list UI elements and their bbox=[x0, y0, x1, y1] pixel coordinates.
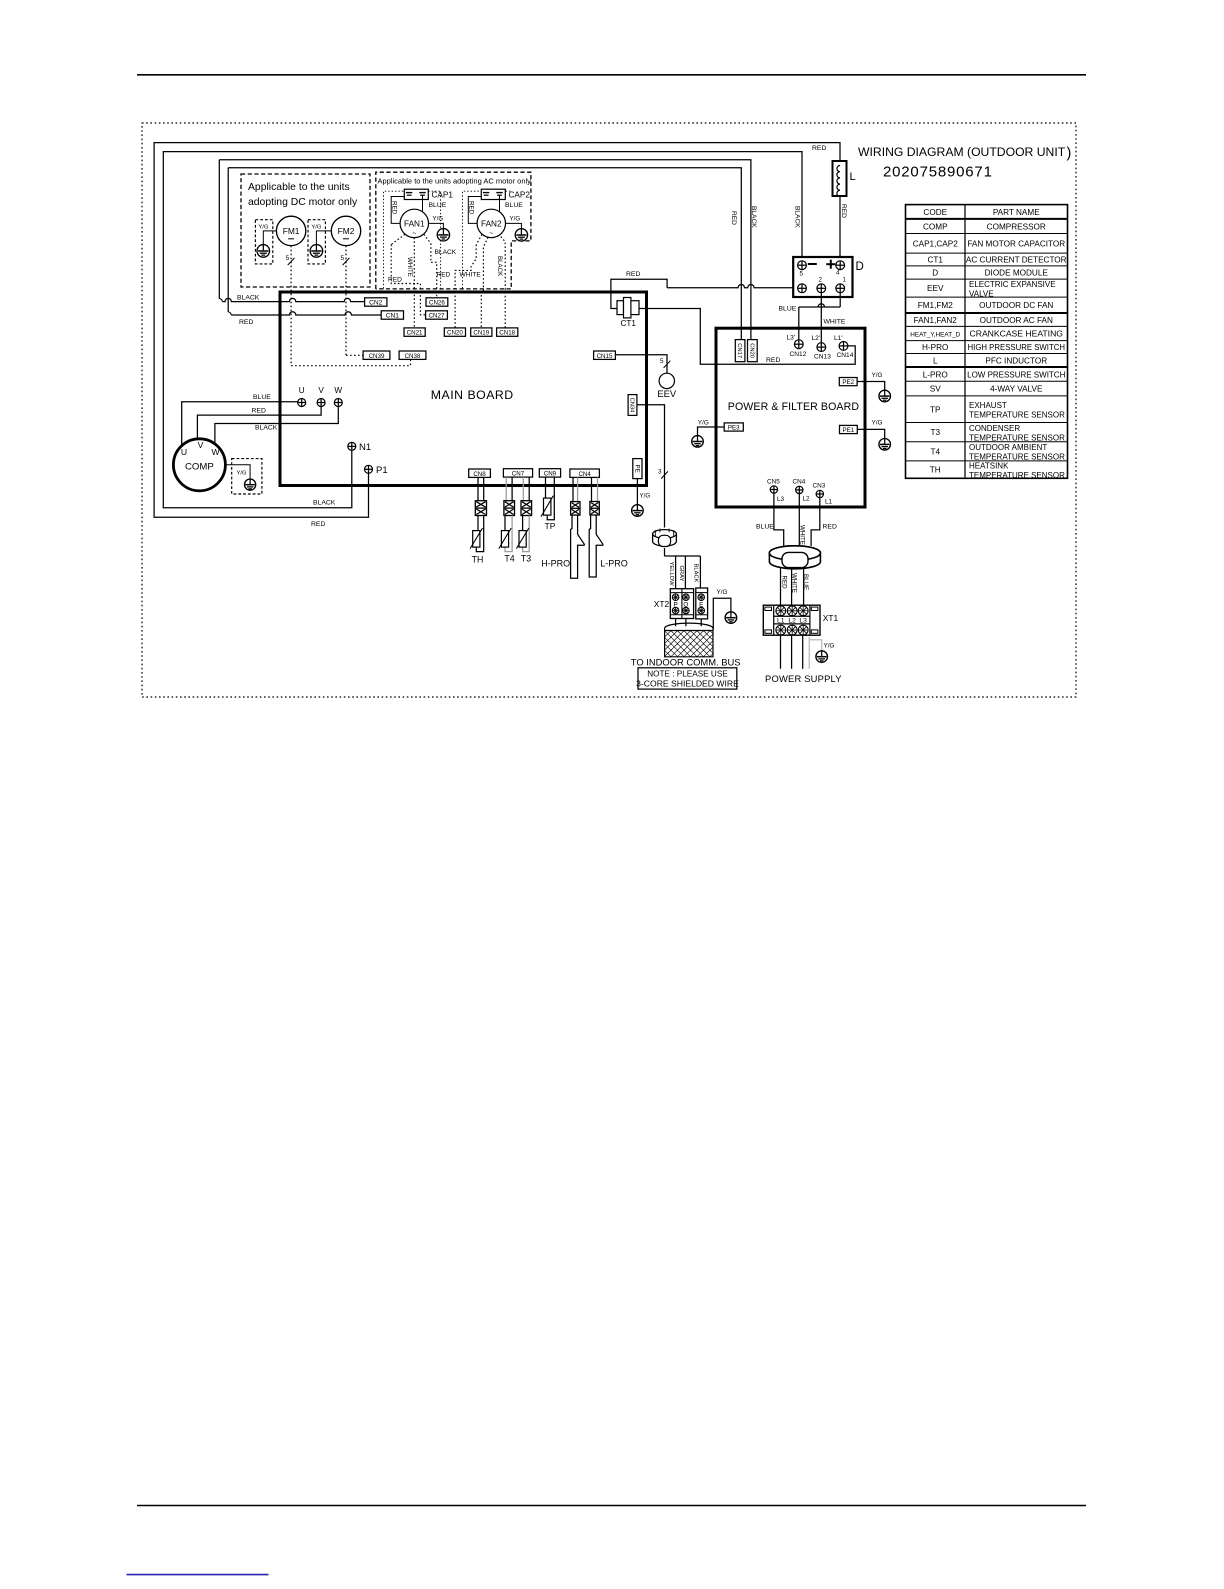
svg-text:EEV: EEV bbox=[657, 388, 677, 399]
svg-text:CT1: CT1 bbox=[621, 319, 637, 328]
svg-text:VALVE: VALVE bbox=[969, 289, 994, 298]
svg-text:CN26: CN26 bbox=[429, 300, 445, 307]
svg-text:RED: RED bbox=[730, 211, 737, 225]
svg-text:COMP: COMP bbox=[923, 222, 948, 231]
svg-text:Applicable to the units: Applicable to the units bbox=[248, 182, 350, 193]
ground (FAN1) bbox=[437, 229, 449, 241]
terminal PE1 bbox=[840, 425, 858, 433]
svg-text:CAP1,CAP2: CAP1,CAP2 bbox=[913, 239, 958, 248]
svg-text:CN2: CN2 bbox=[369, 300, 383, 307]
terminal CN12 L3' bbox=[794, 340, 803, 349]
svg-text:Y/G: Y/G bbox=[311, 225, 321, 231]
svg-text:TEMPERATURE SENSOR: TEMPERATURE SENSOR bbox=[969, 410, 1065, 419]
connector CN39 bbox=[363, 351, 390, 359]
power & filter board outline bbox=[716, 328, 865, 507]
connector CN4 (main board) bbox=[570, 469, 600, 477]
wire FAN2 RED to CN20 (dotted) bbox=[476, 234, 482, 244]
svg-text:WHITE: WHITE bbox=[799, 525, 806, 545]
connector CN38 bbox=[399, 351, 426, 359]
connector CN2 bbox=[365, 298, 387, 306]
wire FAN2 BLACK to CN18 (dotted) bbox=[501, 237, 505, 328]
svg-text:Applicable to the units adopti: Applicable to the units adopting AC moto… bbox=[378, 177, 532, 186]
svg-text:HEAT_Y,HEAT_D: HEAT_Y,HEAT_D bbox=[910, 332, 960, 339]
svg-text:L2: L2 bbox=[803, 496, 811, 503]
svg-text:XT2: XT2 bbox=[654, 599, 670, 609]
svg-text:OUTDOOR AC FAN: OUTDOOR AC FAN bbox=[980, 316, 1053, 325]
svg-text:V: V bbox=[318, 386, 324, 395]
connector CN9 bbox=[539, 469, 560, 477]
wire FAN2 to ground (Y/G) bbox=[506, 223, 522, 228]
svg-text:Y/G: Y/G bbox=[640, 493, 651, 500]
ground (FM2) bbox=[310, 245, 323, 258]
svg-text:XT1: XT1 bbox=[823, 613, 839, 623]
svg-text:CN27: CN27 bbox=[429, 313, 445, 320]
svg-text:Y/G: Y/G bbox=[872, 420, 883, 427]
wire BLACK: CN2 to power&filter CN20 via top bbox=[219, 160, 751, 340]
svg-text:LOW PRESSURE SWITCH: LOW PRESSURE SWITCH bbox=[967, 370, 1065, 379]
svg-text:CN4: CN4 bbox=[578, 471, 591, 478]
jump + wire into CN2 bbox=[219, 299, 222, 302]
thermistor T3 bbox=[519, 531, 526, 548]
svg-text:FAN2: FAN2 bbox=[481, 220, 502, 229]
sensor T4 wiring bbox=[505, 477, 507, 501]
diode module D bbox=[793, 257, 852, 297]
XT2 terminal P bbox=[672, 594, 679, 601]
svg-text:L2: L2 bbox=[788, 617, 796, 624]
svg-text:CN13: CN13 bbox=[814, 353, 831, 360]
ground (FM1) bbox=[257, 245, 270, 258]
svg-text:AC CURRENT DETECTOR: AC CURRENT DETECTOR bbox=[966, 256, 1067, 265]
svg-text:GRAY: GRAY bbox=[678, 566, 684, 582]
svg-text:CN12: CN12 bbox=[790, 351, 807, 358]
svg-text:L1: L1 bbox=[825, 499, 833, 506]
wire L to diode plus bbox=[839, 196, 841, 261]
wire RED loop: P1 to L inductor via left+top border bbox=[154, 143, 840, 518]
svg-text:RED: RED bbox=[437, 272, 451, 279]
svg-text:Y/G: Y/G bbox=[237, 471, 247, 477]
svg-text:BLUE: BLUE bbox=[802, 574, 809, 590]
wire CAP2 to FAN2 (RED) bbox=[468, 197, 481, 224]
svg-text:ELECTRIC EXPANSIVE: ELECTRIC EXPANSIVE bbox=[969, 280, 1056, 289]
dotted page border bbox=[142, 123, 1076, 697]
svg-text:N1: N1 bbox=[359, 442, 371, 453]
sensor TP wiring bbox=[545, 477, 547, 498]
connector PE (vertical) bbox=[633, 459, 642, 479]
svg-text:WHITE: WHITE bbox=[406, 257, 413, 277]
fan motor FAN1 bbox=[400, 209, 428, 237]
svg-text:COMP: COMP bbox=[185, 461, 214, 472]
terminal CN3 / L1 bbox=[816, 490, 823, 497]
svg-text:Y/G: Y/G bbox=[698, 420, 709, 427]
svg-text:CN17: CN17 bbox=[736, 343, 742, 358]
svg-text:EEV: EEV bbox=[927, 284, 944, 293]
svg-text:PE2: PE2 bbox=[842, 379, 854, 386]
wire COMP to ground bbox=[225, 465, 250, 479]
svg-text:CN39: CN39 bbox=[369, 353, 385, 360]
svg-text:NOTE : PLEASE USE: NOTE : PLEASE USE bbox=[647, 670, 728, 679]
svg-text:5: 5 bbox=[341, 255, 345, 262]
svg-text:D: D bbox=[856, 261, 864, 273]
svg-text:CN9: CN9 bbox=[544, 471, 557, 478]
svg-text:TEMPERATURE SENSOR: TEMPERATURE SENSOR bbox=[969, 453, 1065, 462]
COMP ground dashed box bbox=[232, 459, 262, 494]
fan motor FM1 bbox=[276, 216, 305, 245]
wire CN5 to line filter (BLUE) bbox=[774, 493, 784, 546]
connector CN18 bbox=[497, 328, 518, 336]
XT2 terminal Q bbox=[683, 594, 690, 601]
svg-text:U: U bbox=[299, 386, 305, 395]
svg-text:~: ~ bbox=[412, 231, 416, 238]
terminal block XT2 bbox=[670, 589, 693, 619]
wire CAP1 to FAN1 (RED) bbox=[391, 197, 404, 224]
connector CN19 bbox=[471, 328, 492, 336]
svg-text:FAN1: FAN1 bbox=[404, 220, 425, 229]
svg-text:TO INDOOR COMM. BUS: TO INDOOR COMM. BUS bbox=[631, 656, 741, 667]
wire CN34 to XT2 group with 3-slash bbox=[637, 405, 665, 528]
svg-text:4: 4 bbox=[836, 270, 840, 277]
compressor COMP bbox=[173, 439, 225, 491]
svg-text:CN19: CN19 bbox=[473, 330, 489, 337]
svg-text:Y/G: Y/G bbox=[510, 216, 521, 223]
ground (PE1) bbox=[879, 439, 891, 451]
thermistor T4 bbox=[501, 531, 508, 548]
wire FM2 to ground bbox=[316, 231, 331, 245]
svg-text:WIRING DIAGRAM (OUTDOOR UNIT: WIRING DIAGRAM (OUTDOOR UNIT bbox=[858, 145, 1066, 159]
svg-text:POWER SUPPLY: POWER SUPPLY bbox=[765, 673, 842, 684]
ground (PE3) bbox=[692, 436, 704, 448]
wire diode pin2 to CN13 (WHITE) bbox=[820, 293, 822, 343]
svg-text:BLUE: BLUE bbox=[756, 524, 774, 531]
sensor T3 wiring bbox=[522, 477, 524, 501]
svg-text:W: W bbox=[211, 447, 220, 457]
svg-text:H-PRO: H-PRO bbox=[541, 559, 570, 569]
svg-text:PFC INDUCTOR: PFC INDUCTOR bbox=[985, 356, 1047, 365]
wire diode pin1 to CN12 (BLUE) bbox=[839, 293, 841, 307]
capacitor CAP2 bbox=[481, 189, 505, 199]
wire COMP U to board U (BLUE) bbox=[182, 402, 298, 446]
svg-text:FM2: FM2 bbox=[338, 226, 355, 236]
terminal N1 bbox=[348, 442, 356, 450]
wire CN4 to line filter (WHITE) bbox=[798, 494, 800, 546]
svg-text:TP: TP bbox=[930, 405, 941, 414]
svg-text:BLACK: BLACK bbox=[496, 256, 503, 277]
svg-text:CODE: CODE bbox=[923, 208, 947, 217]
connector CN20 (vertical, power board) bbox=[748, 340, 758, 362]
svg-text:L3: L3 bbox=[777, 496, 785, 503]
terminal PE2 bbox=[839, 378, 857, 386]
wire COMP W to board W (BLACK) bbox=[215, 407, 338, 445]
svg-text:TEMPERATURE SENSOR: TEMPERATURE SENSOR bbox=[969, 471, 1065, 480]
svg-text:RED: RED bbox=[388, 276, 402, 283]
AC motor dashed group box (with bottom-right notch) bbox=[376, 172, 531, 289]
svg-text:RED: RED bbox=[239, 319, 253, 326]
svg-text:FM1: FM1 bbox=[283, 226, 300, 236]
line filter toroid bbox=[769, 546, 820, 569]
svg-text:PE1: PE1 bbox=[843, 427, 855, 434]
svg-text:HIGH PRESSURE SWITCH: HIGH PRESSURE SWITCH bbox=[968, 343, 1065, 352]
svg-text:CT1: CT1 bbox=[928, 256, 944, 265]
wire FM2 to CN39 (dotted) with 5-slash bbox=[345, 246, 347, 356]
top rule bbox=[137, 74, 1086, 76]
svg-text:CN5: CN5 bbox=[767, 478, 780, 485]
terminal PE3 bbox=[724, 423, 743, 431]
note box bbox=[638, 668, 737, 689]
svg-text:YELLOW: YELLOW bbox=[668, 562, 674, 587]
svg-text:3-CORE SHIELDED WIRE: 3-CORE SHIELDED WIRE bbox=[636, 679, 739, 689]
svg-text:BLUE: BLUE bbox=[505, 202, 523, 209]
svg-text:CN18: CN18 bbox=[499, 330, 515, 337]
svg-text:CN20: CN20 bbox=[748, 343, 754, 358]
svg-text:TEMPERATURE SENSOR: TEMPERATURE SENSOR bbox=[969, 433, 1065, 442]
svg-text:BLUE: BLUE bbox=[253, 394, 271, 401]
bottom rule bbox=[137, 1505, 1086, 1507]
ground (FAN2) bbox=[515, 229, 527, 241]
FAN1 dotted enclosure bbox=[384, 191, 405, 288]
wires XT2 into cable bbox=[675, 619, 677, 627]
wire GRAY to XT2 bbox=[684, 556, 686, 589]
svg-text:2: 2 bbox=[819, 277, 823, 284]
svg-text:L: L bbox=[933, 356, 938, 365]
svg-text:BLACK: BLACK bbox=[313, 500, 336, 507]
svg-text:~: ~ bbox=[489, 231, 493, 238]
svg-text:CN14: CN14 bbox=[837, 352, 854, 359]
svg-text:HEATSINK: HEATSINK bbox=[969, 461, 1009, 470]
wire PE to ground (Y/G) bbox=[636, 479, 638, 505]
ground (power supply Y/G) bbox=[816, 651, 828, 663]
svg-text:WHITE: WHITE bbox=[791, 573, 798, 593]
svg-text:L1': L1' bbox=[834, 335, 843, 342]
svg-text:T4: T4 bbox=[504, 554, 514, 564]
ground (COMP) bbox=[245, 479, 256, 490]
terminal CN5 / L3 bbox=[770, 486, 777, 493]
svg-text:CONDENSER: CONDENSER bbox=[969, 424, 1020, 433]
wire FAN2 WHITE to CN19 (dotted) bbox=[481, 237, 488, 328]
diode pin 5 (minus) bbox=[798, 261, 807, 270]
terminal U bbox=[298, 399, 306, 407]
svg-text:3: 3 bbox=[658, 469, 662, 476]
svg-text:CN21: CN21 bbox=[407, 330, 423, 337]
XT2 terminal E bbox=[698, 594, 705, 601]
svg-text:adopting DC motor only: adopting DC motor only bbox=[248, 197, 358, 208]
diode pin 2 bbox=[817, 284, 826, 293]
svg-text:SV: SV bbox=[930, 385, 941, 394]
electric expansive valve EEV bbox=[659, 373, 674, 388]
wire XT1 earth (Y/G, grey) bbox=[808, 637, 810, 669]
current transformer CT1 bbox=[617, 301, 624, 315]
svg-text:BLACK: BLACK bbox=[237, 295, 260, 302]
svg-text:TH: TH bbox=[930, 466, 941, 475]
svg-text:202075890671: 202075890671 bbox=[883, 164, 993, 181]
connector CN34 (vertical) bbox=[628, 395, 637, 416]
svg-text:BLACK: BLACK bbox=[693, 564, 699, 583]
wire CAP1 to FAN1 top (BLUE) bbox=[422, 200, 424, 212]
svg-text:Y/G: Y/G bbox=[872, 372, 883, 379]
svg-text:D: D bbox=[932, 269, 938, 278]
footer blue link line bbox=[127, 1574, 269, 1576]
svg-text:T4: T4 bbox=[930, 447, 940, 456]
terminal block XT1 bbox=[763, 605, 820, 635]
connector CN1 bbox=[381, 311, 403, 319]
svg-text:TP: TP bbox=[545, 521, 556, 531]
svg-text:Y/G: Y/G bbox=[433, 216, 444, 223]
PFC inductor L bbox=[833, 161, 847, 196]
wire to diode pin3 with jumps over CN17/CN20 drops bbox=[667, 285, 793, 288]
svg-text:L1: L1 bbox=[777, 617, 785, 624]
svg-text:H-PRO: H-PRO bbox=[922, 343, 948, 352]
svg-text:L2': L2' bbox=[812, 335, 821, 342]
svg-text:CN1: CN1 bbox=[386, 313, 400, 320]
svg-text:FAN MOTOR CAPACITOR: FAN MOTOR CAPACITOR bbox=[967, 239, 1065, 248]
connector CN21 bbox=[404, 328, 425, 336]
ferrite ring on comm wire bbox=[653, 534, 677, 546]
svg-text:BLACK: BLACK bbox=[435, 249, 457, 256]
wire FM1 to CN38 (dotted) with 5-slash bbox=[290, 246, 292, 366]
connector CN20 (main board) bbox=[444, 328, 465, 336]
svg-text:TH: TH bbox=[472, 555, 484, 565]
terminal V bbox=[317, 399, 325, 407]
terminal W bbox=[334, 399, 342, 407]
svg-text:CN7: CN7 bbox=[512, 471, 525, 478]
svg-text:EXHAUST: EXHAUST bbox=[969, 401, 1007, 410]
svg-text:): ) bbox=[1067, 146, 1072, 162]
svg-text:RED: RED bbox=[781, 576, 788, 590]
diode pin 1 bbox=[836, 284, 845, 293]
svg-text:T3: T3 bbox=[930, 428, 940, 437]
svg-text:CAP2: CAP2 bbox=[509, 191, 531, 200]
svg-text:U: U bbox=[181, 447, 187, 457]
wire FM1 to ground bbox=[263, 231, 276, 245]
wire CT1 left to top (RED) bbox=[611, 279, 667, 308]
svg-text:FM1,FM2: FM1,FM2 bbox=[918, 301, 953, 310]
svg-text:RED: RED bbox=[391, 201, 398, 215]
svg-text:RED: RED bbox=[766, 357, 780, 364]
connector CN15 bbox=[594, 351, 616, 359]
svg-text:OUTDOOR DC FAN: OUTDOOR DC FAN bbox=[979, 301, 1053, 310]
svg-text:CRANKCASE HEATING: CRANKCASE HEATING bbox=[970, 329, 1064, 339]
svg-text:PART NAME: PART NAME bbox=[993, 208, 1040, 217]
svg-text:5: 5 bbox=[286, 255, 290, 262]
svg-text:5: 5 bbox=[800, 271, 804, 278]
svg-text:FAN1,FAN2: FAN1,FAN2 bbox=[914, 316, 958, 325]
connector CN26 bbox=[426, 298, 448, 306]
svg-text:RED: RED bbox=[840, 204, 847, 218]
svg-text:BLUE: BLUE bbox=[779, 306, 797, 313]
diode pin 4 (plus) bbox=[836, 261, 845, 270]
shielded cable to indoor unit bbox=[665, 623, 713, 633]
connector CN7 bbox=[503, 469, 532, 477]
svg-text:L-PRO: L-PRO bbox=[923, 370, 948, 379]
svg-text:CN20: CN20 bbox=[447, 330, 463, 337]
svg-text:BLUE: BLUE bbox=[429, 202, 447, 209]
capacitor CAP1 bbox=[404, 189, 428, 199]
FAN2 dotted enclosure bbox=[463, 191, 482, 288]
svg-text:OUTDOOR AMBIENT: OUTDOOR AMBIENT bbox=[969, 443, 1047, 452]
wire FAN1 BLACK to CN26 (dotted) bbox=[424, 234, 431, 243]
wire FAN1 RED to CN27 (dotted) bbox=[391, 234, 405, 244]
wire YELLOW to XT2 bbox=[675, 556, 677, 589]
svg-text:V: V bbox=[198, 440, 204, 450]
wire FAN1 to ground (Y/G) bbox=[429, 223, 444, 228]
fan motor FM2 bbox=[331, 216, 360, 245]
svg-text:BLACK: BLACK bbox=[750, 206, 757, 228]
wire ring to XT2 manifold bbox=[664, 548, 666, 556]
diode pin 3 bbox=[798, 284, 807, 293]
parts table bbox=[906, 205, 1068, 479]
ground Y/G dashed box (FM1) bbox=[255, 220, 272, 264]
ground (PE2) bbox=[879, 390, 891, 402]
wire XT2 shield to ground (Y/G) bbox=[713, 598, 731, 629]
wire BLACK to XT2 bbox=[699, 556, 701, 588]
wire CN3 to line filter (RED) bbox=[811, 498, 820, 546]
low pressure switch L-PRO wiring bbox=[591, 477, 593, 501]
connector CN27 bbox=[426, 311, 448, 319]
wire COMP V to board V (RED) bbox=[197, 407, 321, 439]
svg-text:PE3: PE3 bbox=[728, 425, 740, 432]
svg-text:CAP1: CAP1 bbox=[432, 191, 454, 200]
terminal CN4 / L2 (power board) bbox=[796, 486, 803, 493]
sensor TH wiring bbox=[477, 477, 479, 500]
terminal CN14 L1' bbox=[839, 342, 848, 351]
terminal P1 bbox=[365, 465, 373, 473]
svg-text:MAIN BOARD: MAIN BOARD bbox=[431, 388, 514, 402]
svg-text:L3: L3 bbox=[799, 617, 807, 624]
svg-text:POWER & FILTER BOARD: POWER & FILTER BOARD bbox=[728, 401, 860, 413]
thermistor TH bbox=[473, 531, 480, 548]
wire CT1 right to CN14 (RED) bbox=[639, 309, 855, 365]
svg-text:WHITE: WHITE bbox=[824, 319, 846, 326]
svg-text:RED: RED bbox=[626, 271, 640, 278]
wire RED: CN1 to power&filter CN17 via top bbox=[228, 168, 741, 340]
main board outline bbox=[280, 292, 647, 486]
svg-text:COMPRESSOR: COMPRESSOR bbox=[987, 222, 1046, 231]
high pressure switch H-PRO wiring bbox=[572, 477, 574, 501]
svg-text:RED: RED bbox=[823, 524, 837, 531]
wire CAP2 to FAN2 top (BLUE) bbox=[499, 200, 501, 212]
thermistor TP bbox=[544, 498, 551, 515]
connector CN17 (vertical) bbox=[735, 340, 745, 362]
svg-text:L3': L3' bbox=[787, 334, 796, 341]
terminal CN13 L2' bbox=[817, 343, 826, 352]
svg-text:W: W bbox=[334, 386, 342, 395]
svg-text:DIODE MODULE: DIODE MODULE bbox=[985, 269, 1049, 278]
svg-text:WHITE: WHITE bbox=[460, 272, 482, 279]
svg-text:CN3: CN3 bbox=[813, 483, 826, 490]
svg-text:CN8: CN8 bbox=[473, 471, 486, 478]
svg-text:RED: RED bbox=[812, 145, 826, 152]
svg-text:Y/G: Y/G bbox=[717, 589, 728, 596]
svg-text:RED: RED bbox=[311, 521, 325, 528]
wire FAN1 WHITE to CN21 (dotted) bbox=[413, 238, 415, 328]
wire BLACK loop: N1 to diode module via left+top border bbox=[163, 152, 802, 508]
svg-text:T3: T3 bbox=[521, 554, 531, 564]
svg-text:BLACK: BLACK bbox=[255, 425, 278, 432]
svg-text:4-WAY VALVE: 4-WAY VALVE bbox=[990, 385, 1043, 394]
svg-text:CN15: CN15 bbox=[597, 353, 613, 360]
svg-text:BLACK: BLACK bbox=[793, 206, 800, 228]
fan motor FAN2 bbox=[477, 209, 505, 237]
ground (XT2) bbox=[725, 612, 737, 624]
svg-text:L-PRO: L-PRO bbox=[600, 559, 628, 569]
svg-text:RED: RED bbox=[468, 201, 475, 215]
wire CN15 to EEV with 5-slash bbox=[615, 355, 667, 374]
DC motor dashed group box bbox=[241, 174, 370, 287]
wires XT1 to power supply bbox=[780, 635, 782, 669]
svg-text:CN4: CN4 bbox=[793, 478, 806, 485]
svg-text:Y/G: Y/G bbox=[824, 643, 835, 650]
svg-text:RED: RED bbox=[252, 407, 266, 414]
svg-text:L: L bbox=[850, 171, 856, 183]
svg-text:P1: P1 bbox=[376, 465, 388, 476]
